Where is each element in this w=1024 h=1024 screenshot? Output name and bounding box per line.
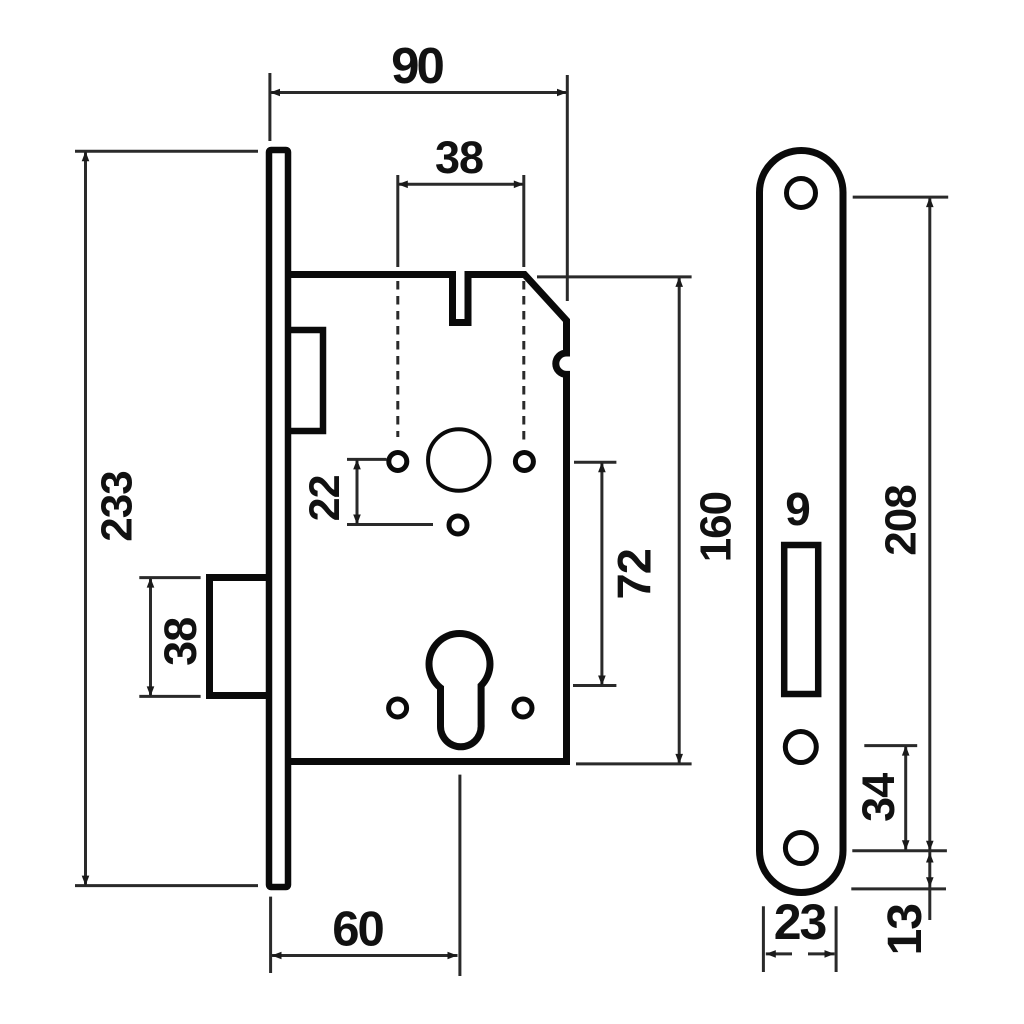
arrows 38 top xyxy=(398,181,408,189)
dim 208 / 13 shared line xyxy=(928,198,931,920)
arrows 208 xyxy=(926,197,934,207)
dim 38 top line xyxy=(398,183,524,186)
upper-left screw hole xyxy=(389,453,407,471)
latch housing box xyxy=(290,330,323,431)
upper-right screw hole xyxy=(515,453,533,471)
dim 34 line xyxy=(904,746,907,850)
euro profile cylinder hole xyxy=(426,630,494,750)
svg-text:208: 208 xyxy=(876,485,925,556)
arrows 13 xyxy=(926,853,934,863)
svg-text:9: 9 xyxy=(785,483,811,535)
dim 13 bottom extension line xyxy=(851,887,946,890)
dim 72 line xyxy=(600,463,603,685)
arrows 72 xyxy=(598,462,606,472)
svg-text:60: 60 xyxy=(332,902,383,956)
faceplate (front plate, side view) xyxy=(269,150,288,887)
lock case outline with top notch, chamfered corner and edge notch xyxy=(290,275,567,762)
dim 160 extension lines xyxy=(537,277,692,764)
dim 72 extension lines xyxy=(573,462,616,685)
dim 38 left extension lines xyxy=(139,578,200,697)
dim 38 left line xyxy=(149,578,152,696)
svg-text:23: 23 xyxy=(774,894,826,950)
dim 22 line xyxy=(356,460,359,524)
svg-text:34: 34 xyxy=(853,773,904,822)
dim 22 extension lines xyxy=(347,459,433,524)
dim 233 line xyxy=(84,152,87,885)
svg-text:90: 90 xyxy=(391,37,443,94)
svg-text:13: 13 xyxy=(879,904,932,955)
arrows 233 xyxy=(82,151,90,161)
svg-text:72: 72 xyxy=(608,549,661,599)
dashed hole center lines xyxy=(398,281,524,443)
arrows 160 xyxy=(675,277,683,287)
arrows 90 xyxy=(270,89,280,97)
dim 34 extension line xyxy=(864,744,917,747)
arrows 22 xyxy=(353,459,361,469)
dim 90 extension lines xyxy=(270,73,567,301)
plate bottom screw hole xyxy=(785,833,816,864)
plate middle screw hole xyxy=(785,732,816,763)
small hole below spindle xyxy=(449,516,467,534)
arrows 23 xyxy=(766,950,776,958)
svg-text:38: 38 xyxy=(155,618,206,666)
dim 23 arrow tails xyxy=(766,952,835,955)
svg-text:233: 233 xyxy=(93,471,142,541)
dim 60 extension lines xyxy=(271,775,460,976)
deadbolt (thrown, protruding left) xyxy=(210,578,268,696)
arrows 38 left xyxy=(147,578,155,588)
plate top screw hole xyxy=(787,179,816,208)
svg-text:160: 160 xyxy=(691,492,740,562)
dim 90 line xyxy=(270,91,567,94)
spindle hole (large circle) xyxy=(428,429,490,491)
dim 160 line xyxy=(678,278,681,764)
lower-left screw hole xyxy=(389,699,407,717)
arrowheads xyxy=(82,89,934,960)
arrows 60 xyxy=(272,952,282,960)
dim 60 line xyxy=(272,954,458,957)
strike plate outline (rounded) xyxy=(760,151,844,893)
dim 38 top extension lines xyxy=(398,175,524,267)
arrows 34 xyxy=(902,746,910,756)
latch rectangular opening xyxy=(784,545,818,694)
svg-text:22: 22 xyxy=(301,475,349,521)
dim 23 extension lines xyxy=(763,906,836,972)
lower-right screw hole xyxy=(514,699,532,717)
dim 233 extension lines xyxy=(75,151,258,885)
dim 208 extension lines xyxy=(852,197,948,851)
svg-text:38: 38 xyxy=(435,132,483,183)
